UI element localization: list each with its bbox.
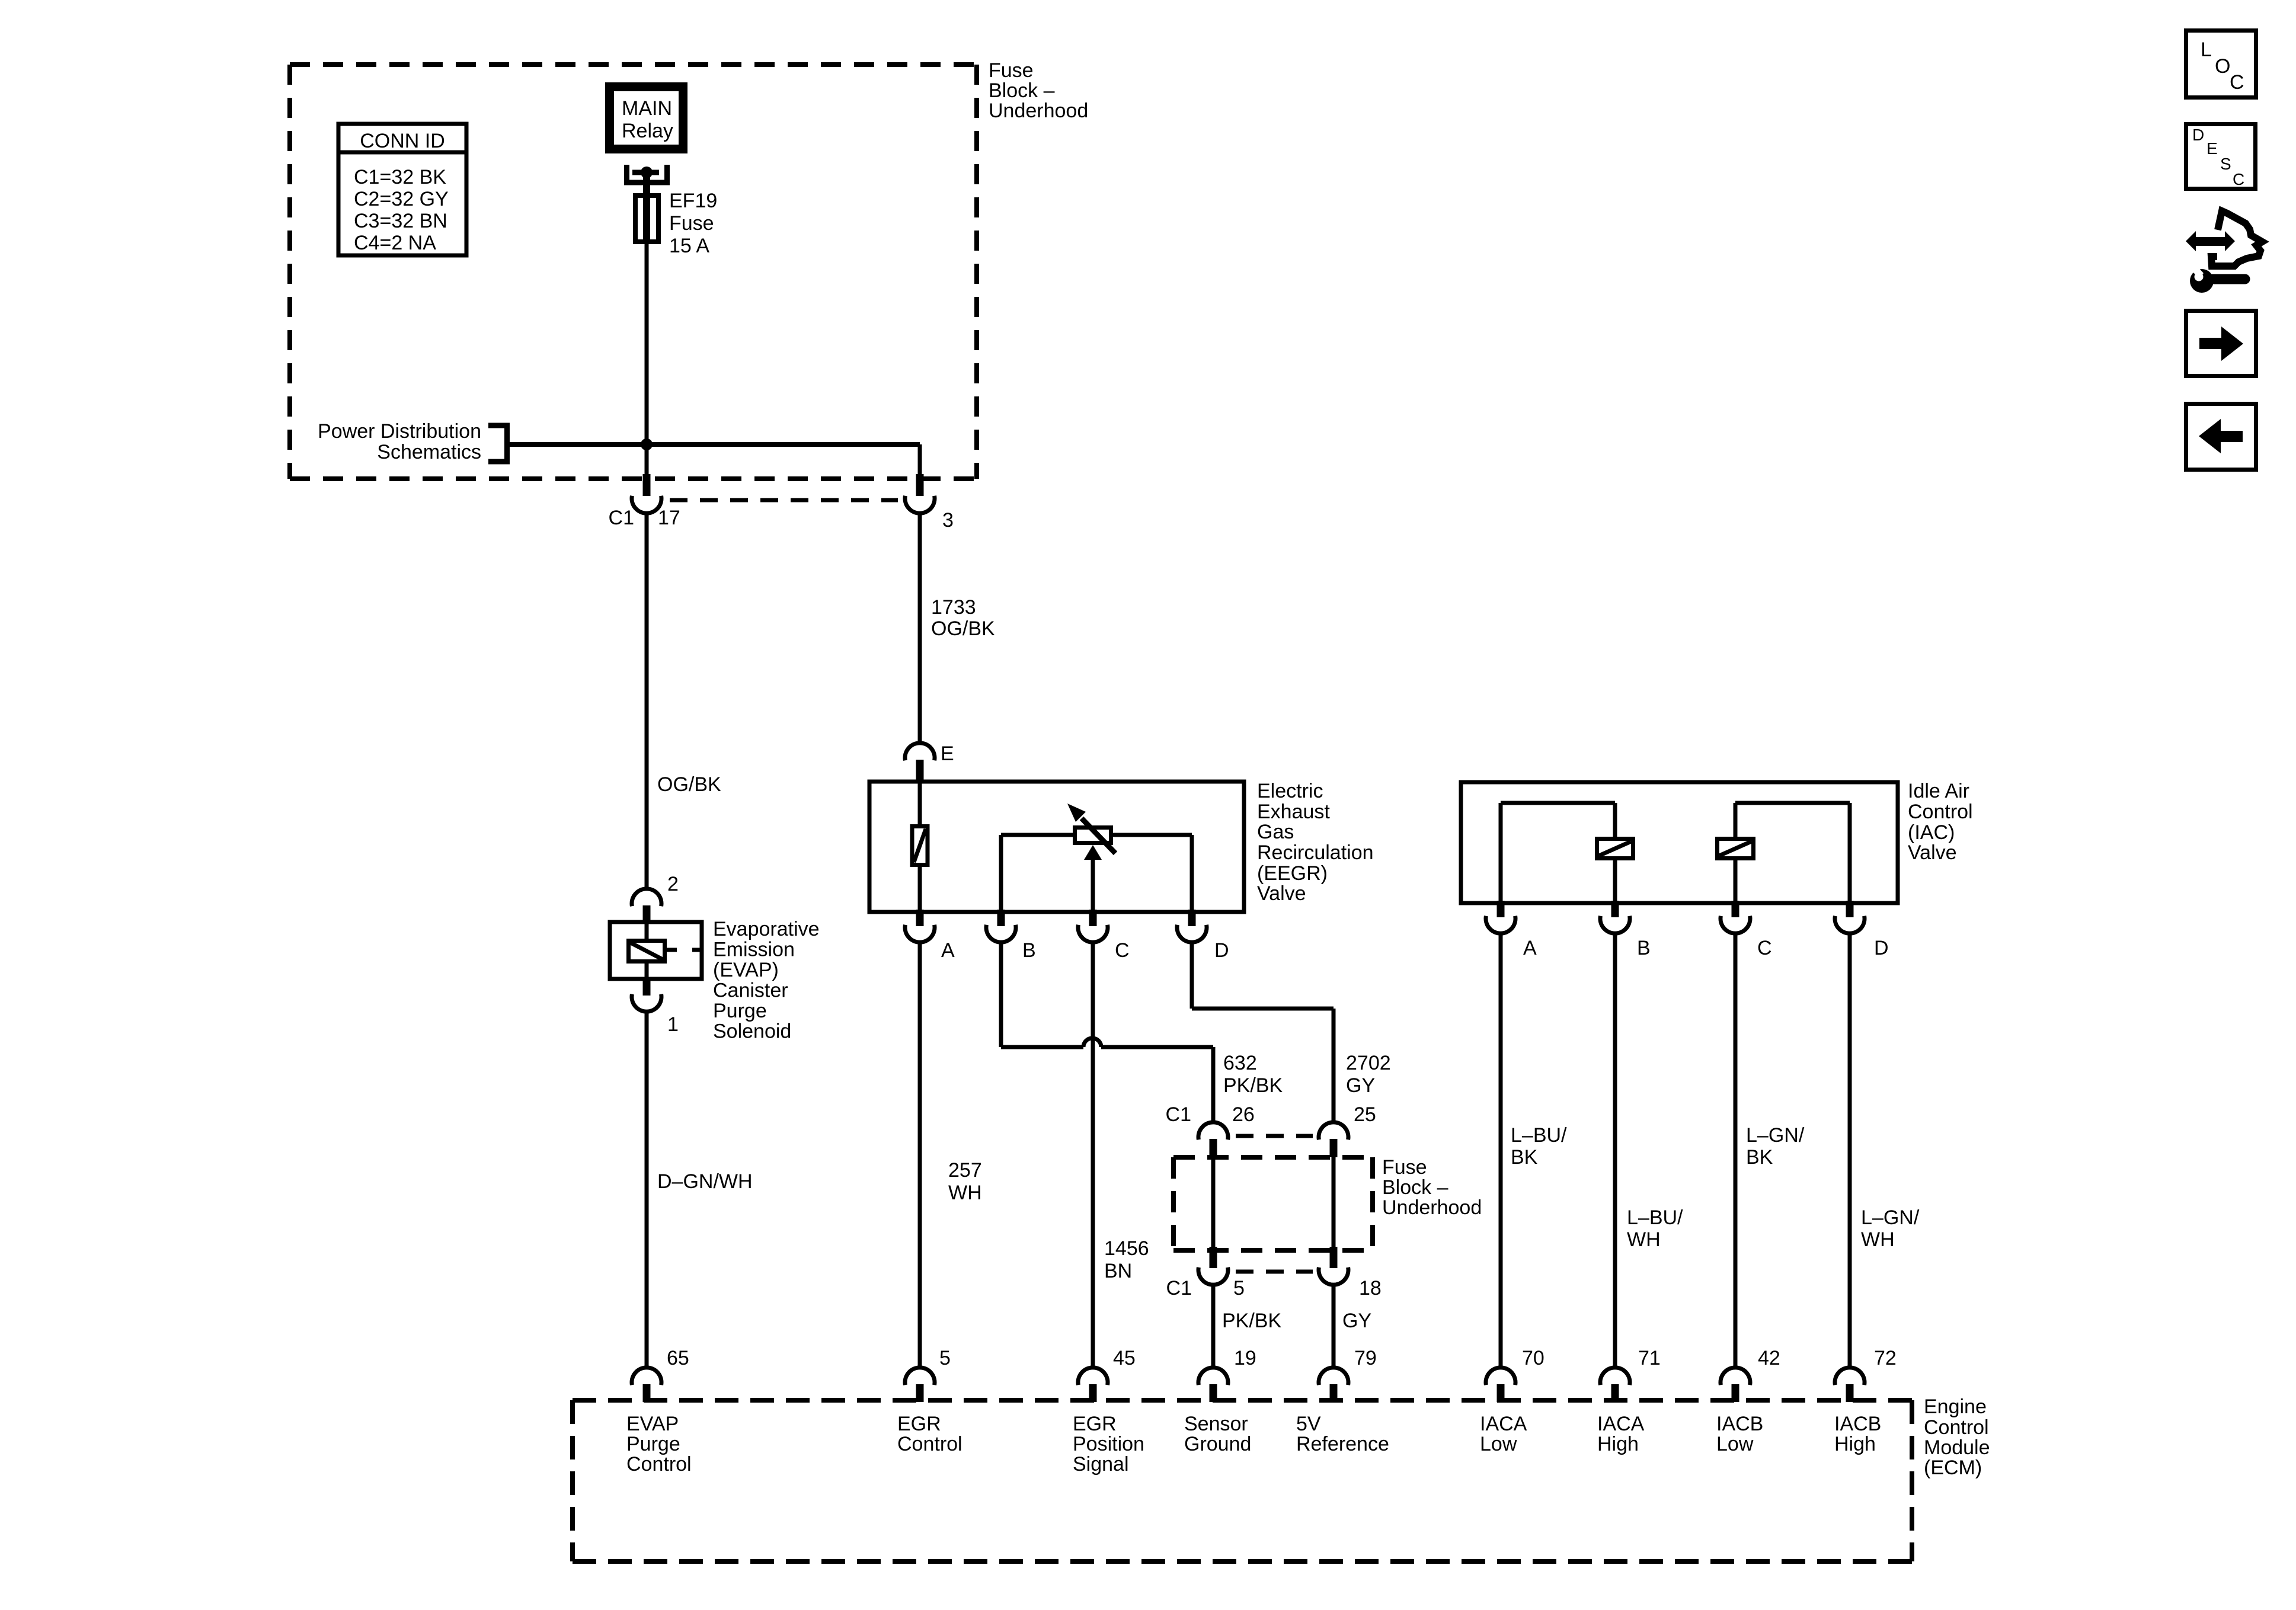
svg-text:Control: Control: [897, 1433, 962, 1455]
svg-text:C1: C1: [609, 507, 634, 529]
svg-text:BK: BK: [1511, 1146, 1538, 1169]
svg-text:45: 45: [1113, 1347, 1136, 1369]
svg-text:B: B: [1637, 937, 1651, 959]
svg-text:15 A: 15 A: [669, 235, 709, 257]
potentiometer EEGR position sensor: [1067, 804, 1115, 853]
svg-text:Fuse: Fuse: [1382, 1156, 1427, 1179]
connector pin 25: [1319, 1103, 1376, 1157]
connector dashed line 5-18: [1236, 1270, 1313, 1274]
connector E EEGR: [905, 742, 954, 780]
svg-text:Electric: Electric: [1257, 780, 1323, 802]
connector ECM pin 70: [1486, 1347, 1544, 1402]
svg-text:IACA: IACA: [1597, 1413, 1645, 1435]
connector 2 EVAP: [632, 873, 679, 923]
wire PK/BK to ECM 19: [1213, 1285, 1281, 1368]
connector ECM pin 65: [632, 1347, 689, 1402]
wire L-GN/BK IACB low: [1735, 933, 1805, 1368]
svg-text:EF19: EF19: [669, 190, 717, 212]
svg-text:5: 5: [939, 1347, 951, 1369]
CONN ID table: [338, 124, 466, 255]
svg-text:Purge: Purge: [713, 1000, 767, 1022]
label Fuse Block - Underhood (middle): [1382, 1156, 1482, 1219]
svg-text:70: 70: [1522, 1347, 1544, 1369]
label 632 PK/BK: [1223, 1052, 1283, 1097]
wire B branch EEGR: [1001, 835, 1073, 912]
label IACA High: [1597, 1413, 1645, 1455]
svg-text:5V: 5V: [1296, 1413, 1321, 1435]
svg-text:Engine: Engine: [1924, 1395, 1987, 1418]
label IACA Low: [1480, 1413, 1527, 1455]
EEGR valve box: [869, 782, 1244, 912]
connector pin 18: [1319, 1247, 1382, 1299]
wire branch down to pin 3: [918, 444, 922, 478]
svg-text:Control: Control: [1924, 1416, 1989, 1439]
coil IAC A winding: [1501, 803, 1633, 903]
svg-text:Position: Position: [1073, 1433, 1144, 1455]
connector D IAC: [1835, 901, 1889, 959]
svg-text:(EVAP): (EVAP): [713, 959, 779, 981]
svg-text:L–GN/: L–GN/: [1861, 1206, 1920, 1229]
svg-text:(ECM): (ECM): [1924, 1457, 1982, 1479]
svg-text:D: D: [1214, 939, 1229, 962]
svg-text:C4=2 NA: C4=2 NA: [354, 232, 436, 254]
svg-text:79: 79: [1354, 1347, 1377, 1369]
label EVAP Purge Control: [626, 1413, 692, 1475]
svg-text:PK/BK: PK/BK: [1222, 1310, 1281, 1332]
wire D-GN/WH to ECM 65: [647, 1011, 753, 1368]
svg-text:Power Distribution: Power Distribution: [318, 420, 481, 443]
wire L-BU/WH IACA high: [1615, 933, 1683, 1368]
power distribution bracket: [318, 420, 507, 463]
wire L-BU/BK IACA low: [1501, 933, 1567, 1368]
svg-text:257: 257: [948, 1159, 982, 1182]
connector ECM pin 72: [1835, 1347, 1897, 1402]
svg-text:Low: Low: [1480, 1433, 1517, 1455]
connector D EEGR: [1177, 910, 1229, 962]
svg-text:EGR: EGR: [897, 1413, 941, 1435]
svg-text:26: 26: [1232, 1103, 1255, 1126]
svg-text:632: 632: [1223, 1052, 1257, 1074]
svg-text:(EEGR): (EEGR): [1257, 862, 1328, 885]
svg-text:L–BU/: L–BU/: [1627, 1206, 1683, 1229]
svg-text:L: L: [2201, 39, 2212, 61]
svg-text:Module: Module: [1924, 1436, 1990, 1459]
svg-text:E: E: [2207, 139, 2218, 158]
svg-text:(IAC): (IAC): [1908, 821, 1955, 844]
svg-text:High: High: [1597, 1433, 1639, 1455]
connector dashed line 17-3: [670, 498, 898, 502]
svg-text:65: 65: [667, 1347, 689, 1369]
svg-text:Underhood: Underhood: [989, 100, 1088, 122]
svg-text:High: High: [1834, 1433, 1876, 1455]
svg-text:17: 17: [658, 507, 680, 529]
icon DESC: [2186, 124, 2256, 189]
svg-text:Low: Low: [1716, 1433, 1754, 1455]
icon arrow left: [2186, 404, 2256, 470]
svg-text:Recirculation: Recirculation: [1257, 841, 1374, 864]
svg-text:Fuse: Fuse: [989, 59, 1034, 82]
svg-text:C1: C1: [1166, 1103, 1191, 1126]
connector ECM pin 5: [905, 1347, 951, 1402]
fuse block underhood dashed box: [290, 65, 977, 479]
label 5V Reference: [1296, 1413, 1389, 1455]
svg-text:Control: Control: [1908, 801, 1973, 823]
svg-text:A: A: [1523, 937, 1537, 959]
wire 257 WH EGR control: [920, 942, 982, 1368]
relay K MAIN Relay: [605, 82, 687, 153]
svg-text:1733: 1733: [931, 596, 976, 619]
svg-text:Sensor: Sensor: [1184, 1413, 1248, 1435]
connector ECM pin 45: [1078, 1347, 1136, 1402]
wire power distribution horizontal: [509, 442, 920, 447]
connector pin 3: [905, 474, 954, 532]
svg-text:Emission: Emission: [713, 939, 795, 961]
label Engine Control Module (ECM): [1924, 1395, 1990, 1479]
svg-text:PK/BK: PK/BK: [1223, 1074, 1283, 1097]
connector ECM pin 71: [1600, 1347, 1661, 1402]
label IACB High: [1834, 1413, 1881, 1455]
wire B to fuse block 26 with hop: [1001, 942, 1213, 1123]
svg-text:L–BU/: L–BU/: [1511, 1124, 1567, 1147]
icon arrow right: [2186, 311, 2256, 376]
svg-text:18: 18: [1359, 1277, 1382, 1299]
coil EEGR solenoid: [912, 780, 928, 912]
label Idle Air Control (IAC) Valve: [1908, 780, 1973, 864]
svg-text:OG/BK: OG/BK: [657, 773, 721, 796]
svg-text:Ground: Ground: [1184, 1433, 1251, 1455]
connector C1 pin 17: [609, 474, 680, 529]
wire L-GN/WH IACB high: [1850, 933, 1920, 1368]
svg-text:OG/BK: OG/BK: [931, 617, 995, 640]
svg-text:19: 19: [1234, 1347, 1256, 1369]
svg-text:71: 71: [1638, 1347, 1661, 1369]
connector C1 pin 5: [1166, 1247, 1245, 1299]
svg-text:Canister: Canister: [713, 980, 788, 1002]
fuse block underhood small dashed box: [1173, 1157, 1373, 1250]
svg-text:Signal: Signal: [1073, 1453, 1129, 1475]
svg-text:GY: GY: [1342, 1310, 1371, 1332]
svg-text:C2=32 GY: C2=32 GY: [354, 188, 449, 210]
svg-text:Valve: Valve: [1257, 882, 1306, 905]
svg-text:1: 1: [667, 1013, 679, 1036]
svg-text:D–GN/WH: D–GN/WH: [657, 1170, 753, 1193]
svg-text:Underhood: Underhood: [1382, 1196, 1482, 1219]
svg-text:Relay: Relay: [622, 120, 673, 142]
svg-text:Exhaust: Exhaust: [1257, 801, 1330, 823]
connector B EEGR: [986, 910, 1036, 962]
svg-text:Control: Control: [626, 1453, 692, 1475]
label IACB Low: [1716, 1413, 1763, 1455]
svg-text:3: 3: [942, 509, 954, 532]
svg-text:BN: BN: [1104, 1260, 1132, 1282]
svg-text:EVAP: EVAP: [626, 1413, 679, 1435]
junction dot: [641, 438, 653, 450]
svg-text:Solenoid: Solenoid: [713, 1020, 791, 1043]
svg-text:C3=32 BN: C3=32 BN: [354, 210, 447, 232]
svg-text:Schematics: Schematics: [377, 441, 481, 463]
label Fuse Block - Underhood (top): [989, 59, 1088, 122]
svg-text:C: C: [1115, 939, 1130, 962]
svg-text:1456: 1456: [1104, 1237, 1149, 1260]
label EGR Position Signal: [1073, 1413, 1144, 1475]
icon harness wrench: [2186, 211, 2262, 293]
svg-text:EGR: EGR: [1073, 1413, 1117, 1435]
wire OG/BK to EVAP: [647, 513, 721, 889]
connector C IAC: [1721, 901, 1772, 959]
svg-text:2702: 2702: [1346, 1052, 1391, 1074]
svg-text:D: D: [1874, 937, 1889, 959]
svg-text:C1=32 BK: C1=32 BK: [354, 166, 446, 188]
svg-text:GY: GY: [1346, 1074, 1375, 1097]
wire D to fuse block 25: [1192, 942, 1334, 1123]
svg-text:O: O: [2215, 55, 2230, 78]
connector ECM pin 79: [1319, 1347, 1377, 1402]
svg-text:Evaporative: Evaporative: [713, 918, 820, 940]
svg-text:Idle Air: Idle Air: [1908, 780, 1969, 802]
svg-text:S: S: [2220, 155, 2231, 173]
wire 25 to 18 inside fuse block: [1332, 1157, 1336, 1250]
fuse EF19 15A: [635, 190, 717, 257]
label Evaporative Emission (EVAP) Canister Purge Solenoid: [713, 918, 820, 1043]
svg-text:IACB: IACB: [1834, 1413, 1881, 1435]
svg-text:MAIN: MAIN: [622, 97, 672, 120]
connector dashed line 26-25: [1236, 1134, 1313, 1138]
svg-text:42: 42: [1758, 1347, 1780, 1369]
fuse holder bracket: [627, 165, 667, 193]
svg-text:L–GN/: L–GN/: [1746, 1124, 1805, 1147]
svg-text:72: 72: [1874, 1347, 1897, 1369]
wire 1456 BN EGR position signal: [1093, 942, 1149, 1368]
ECM dashed box: [573, 1400, 1912, 1561]
connector B IAC: [1600, 901, 1651, 959]
svg-text:C: C: [2233, 170, 2244, 188]
svg-text:WH: WH: [1627, 1228, 1661, 1251]
label Sensor Ground: [1184, 1413, 1251, 1455]
connector 1 EVAP: [632, 979, 679, 1036]
svg-text:Purge: Purge: [626, 1433, 680, 1455]
svg-text:BK: BK: [1746, 1146, 1773, 1169]
connector ECM pin 42: [1721, 1347, 1780, 1402]
svg-text:CONN ID: CONN ID: [360, 130, 445, 152]
svg-text:IACB: IACB: [1716, 1413, 1763, 1435]
svg-text:B: B: [1022, 939, 1036, 962]
svg-text:Fuse: Fuse: [669, 212, 714, 235]
svg-text:25: 25: [1354, 1103, 1376, 1126]
svg-text:5: 5: [1233, 1277, 1245, 1299]
svg-text:E: E: [941, 742, 954, 765]
connector A EEGR: [905, 910, 955, 962]
wire 1733 OG/BK to EEGR E: [920, 513, 995, 744]
connector C EEGR: [1078, 910, 1130, 962]
connector ECM pin 19: [1198, 1347, 1256, 1402]
solenoid EVAP canister purge: [610, 922, 702, 979]
connector C1 pin 26: [1166, 1103, 1255, 1157]
label Electric Exhaust Gas Recirculation (EEGR) Valve: [1257, 780, 1374, 905]
wiper arrow EEGR: [1084, 845, 1102, 912]
wire 26 to 5 inside fuse block: [1211, 1157, 1216, 1250]
svg-text:A: A: [941, 939, 955, 962]
svg-text:Block –: Block –: [989, 79, 1055, 102]
connector A IAC: [1486, 901, 1537, 959]
coil IAC B winding: [1718, 803, 1850, 903]
svg-text:C: C: [1757, 937, 1772, 959]
svg-text:C: C: [2230, 71, 2244, 94]
wire D branch EEGR: [1112, 835, 1192, 912]
svg-text:WH: WH: [1861, 1228, 1895, 1251]
wire fuse to box bottom: [645, 244, 649, 478]
svg-text:Block –: Block –: [1382, 1176, 1448, 1199]
svg-text:Gas: Gas: [1257, 821, 1294, 843]
wire GY to ECM 79: [1334, 1285, 1371, 1368]
svg-text:D: D: [2192, 126, 2204, 144]
label 2702 GY: [1346, 1052, 1391, 1097]
svg-text:Valve: Valve: [1908, 841, 1957, 864]
svg-text:IACA: IACA: [1480, 1413, 1527, 1435]
svg-text:2: 2: [667, 873, 679, 895]
svg-text:Reference: Reference: [1296, 1433, 1389, 1455]
svg-text:WH: WH: [948, 1182, 982, 1204]
label EGR Control: [897, 1413, 962, 1455]
svg-text:C1: C1: [1166, 1277, 1192, 1299]
icon LOC: [2186, 31, 2256, 98]
IAC valve box: [1461, 782, 1898, 903]
